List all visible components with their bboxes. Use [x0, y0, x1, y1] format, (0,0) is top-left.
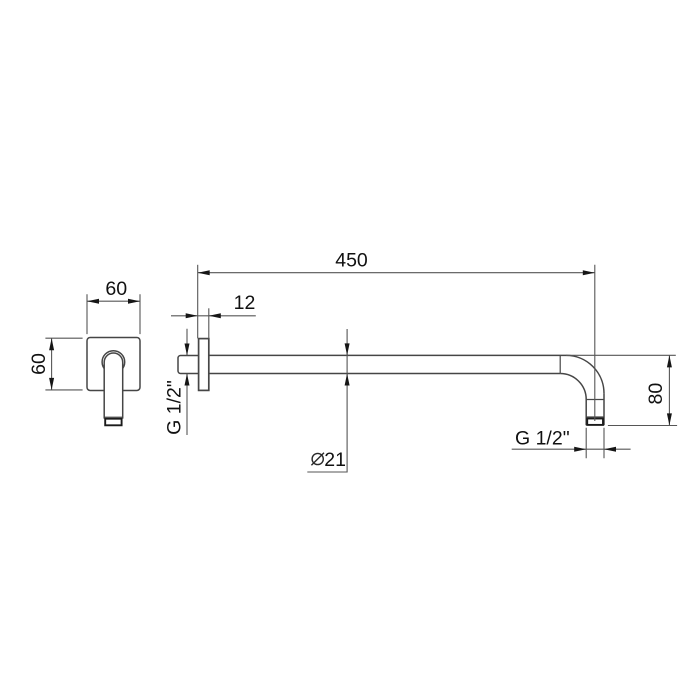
svg-text:G 1/2": G 1/2" [164, 380, 186, 435]
svg-text:12: 12 [234, 292, 256, 314]
front view end cap [104, 416, 123, 418]
front view flange square 60x60 [87, 338, 140, 391]
svg-text:21: 21 [324, 449, 346, 471]
svg-text:G 1/2": G 1/2" [515, 428, 570, 450]
side view wall flange [199, 339, 209, 391]
arrowheads dim G1/2 bottom (outside) [574, 447, 586, 452]
arrowheads dim 60 left [49, 338, 54, 350]
bend inner curve [560, 374, 586, 400]
arm tube top line [209, 354, 566, 356]
dim 60 top extension lines [87, 294, 140, 334]
diameter symbol [311, 453, 324, 466]
dim 80 extension top [566, 354, 676, 356]
down tube end cap [586, 416, 604, 418]
dim G1/2 bottom line [512, 448, 631, 450]
svg-text:80: 80 [645, 383, 667, 405]
arrowheads dim 12 (outside) [186, 313, 198, 318]
down tube edges [586, 393, 604, 425]
dim G1/2 bottom extension lines [586, 428, 604, 459]
dim 450 line [198, 272, 595, 274]
tube joint line [559, 355, 561, 373]
bend outer curve [566, 355, 604, 393]
front view escutcheon circle [102, 351, 125, 374]
arm tube bottom line [209, 373, 560, 375]
dim 12 extension line right [208, 308, 210, 338]
dim G1/2 left leader lines [186, 329, 188, 435]
dim 80 extension bottom [608, 425, 677, 427]
svg-text:60: 60 [28, 353, 50, 375]
dim 450 extension line left [197, 265, 199, 339]
arrowheads dia 21 (outside) [345, 343, 350, 355]
dim 80 line [668, 355, 670, 425]
dim 60 left line [51, 338, 53, 390]
front view arm tube (rounded top) [104, 353, 123, 419]
dia 21 leader line [307, 329, 347, 472]
arrowheads dim 450 [198, 270, 210, 275]
dim 450 extension line right / down tube centerline [594, 265, 596, 421]
svg-text:450: 450 [335, 250, 368, 272]
svg-text:60: 60 [105, 278, 127, 300]
arrowheads dim 60 top [87, 299, 99, 304]
dim 60 top line [87, 300, 140, 302]
dim 60 left extension lines [45, 338, 82, 390]
down tube joint line [586, 399, 604, 401]
arrowheads dim G1/2 left (outside) [185, 344, 190, 356]
side view wall stub G1/2 [178, 356, 199, 374]
arrowheads dim 80 [667, 355, 672, 367]
dim 12 line [171, 315, 256, 317]
